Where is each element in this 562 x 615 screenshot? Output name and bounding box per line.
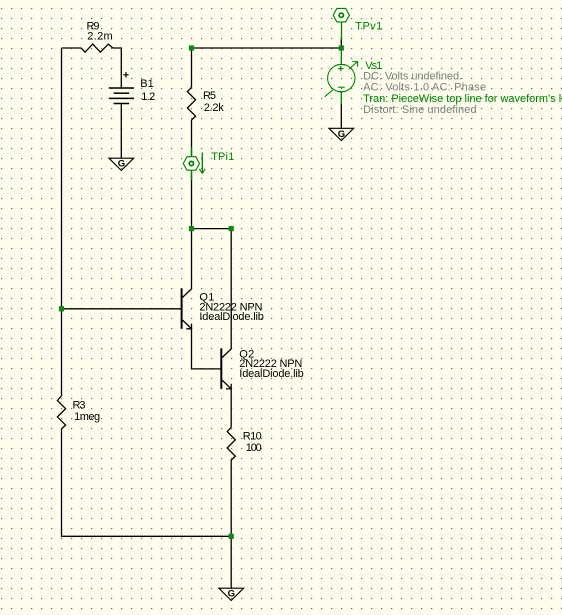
svg-text:B1: B1 bbox=[140, 78, 154, 90]
svg-text:TPv1: TPv1 bbox=[355, 20, 382, 32]
svg-text:R3: R3 bbox=[73, 399, 86, 411]
svg-text:100: 100 bbox=[246, 442, 262, 454]
svg-text:TPi1: TPi1 bbox=[211, 151, 234, 163]
svg-text:R5: R5 bbox=[203, 90, 216, 102]
svg-text:AC: Volts 1.0 AC: Phase: AC: Volts 1.0 AC: Phase bbox=[363, 81, 486, 93]
svg-text:IdealDiode.lib: IdealDiode.lib bbox=[199, 311, 264, 323]
svg-text:1.2: 1.2 bbox=[141, 91, 155, 103]
svg-text:Distort: Sine undefined: Distort: Sine undefined bbox=[363, 104, 477, 116]
svg-text:G: G bbox=[118, 159, 125, 170]
svg-text:R10: R10 bbox=[243, 430, 262, 442]
svg-text:1meg: 1meg bbox=[74, 411, 100, 423]
svg-text:2.2k: 2.2k bbox=[204, 102, 225, 114]
svg-text:G: G bbox=[338, 129, 345, 140]
svg-text:G: G bbox=[228, 589, 235, 600]
svg-text:2.2m: 2.2m bbox=[87, 30, 113, 42]
svg-text:IdealDiode.lib: IdealDiode.lib bbox=[239, 368, 303, 380]
